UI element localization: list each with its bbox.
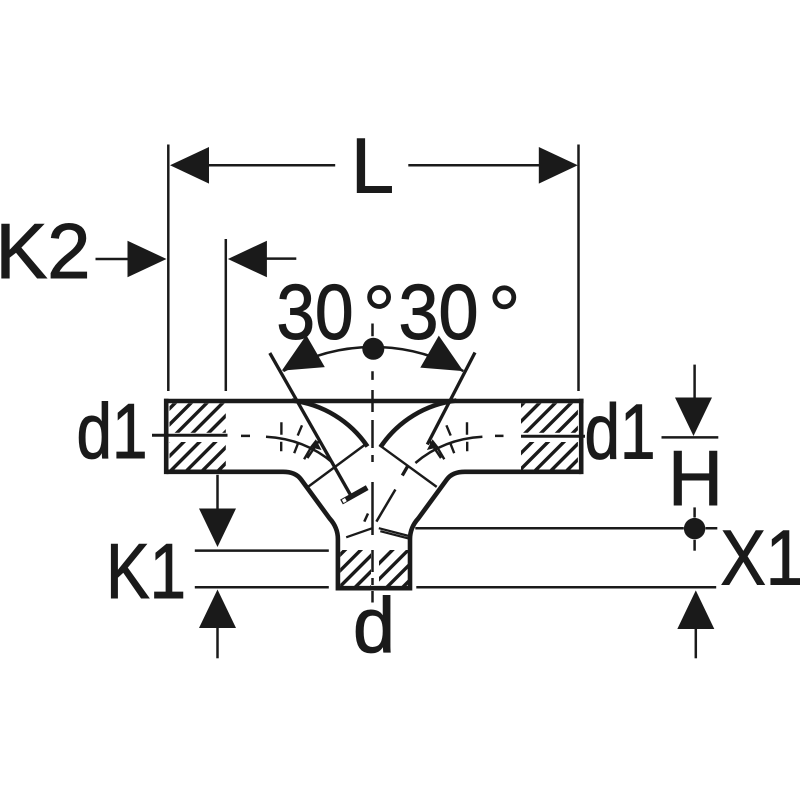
branch inner wall arc right	[381, 401, 457, 447]
K1 dimension line lower	[216, 627, 219, 658]
angle arrowhead right	[420, 336, 463, 372]
H lower stub	[693, 507, 696, 517]
horizontal centerline dashes	[241, 435, 504, 438]
arrowhead K1 down	[199, 509, 236, 548]
svg-text:K1: K1	[106, 527, 186, 615]
socket shoulder lines right	[379, 528, 409, 538]
inner wall line right	[379, 445, 437, 487]
K2 leader right	[266, 257, 296, 260]
angle dimension arc	[283, 347, 463, 371]
weld bar marker	[342, 488, 368, 502]
H dimension line upper	[693, 365, 696, 399]
K1 dimension line upper	[216, 475, 219, 509]
outlet socket hatch right	[379, 550, 408, 586]
branch axis 30deg left	[270, 353, 351, 496]
branch axis right dash	[402, 467, 407, 476]
socket shoulder line left	[346, 528, 372, 537]
svg-text:L: L	[351, 122, 394, 210]
svg-text:d: d	[353, 581, 395, 669]
fitting body outline	[166, 472, 581, 588]
svg-text:30: 30	[277, 267, 354, 355]
extension line K2 right	[225, 239, 228, 391]
arrowhead L right	[539, 147, 578, 184]
degree ring first	[370, 288, 389, 307]
degree ring second	[495, 288, 514, 307]
svg-text:30: 30	[399, 267, 479, 355]
flow curve right	[415, 437, 482, 463]
branch axis right lower	[376, 490, 395, 522]
outlet socket hatch left	[340, 550, 371, 586]
X1 extension line top	[415, 527, 717, 530]
pipe top edge	[164, 399, 583, 404]
H tick line at pipe centerline	[662, 436, 719, 439]
arrowhead K2 pointing left	[228, 241, 267, 278]
svg-text:d1: d1	[585, 388, 656, 476]
K1 extension line top	[195, 549, 329, 552]
pipe left end cap	[164, 399, 169, 474]
arrowhead L left	[170, 147, 209, 184]
tick marks left flow curve	[281, 422, 319, 459]
K1 extension line bottom left	[195, 586, 329, 589]
svg-text:X1: X1	[721, 514, 800, 602]
flow curve left	[266, 437, 333, 463]
arrowhead H down	[675, 398, 712, 437]
extension line right (L)	[577, 145, 580, 392]
arrowhead X1 up	[677, 590, 714, 629]
right socket hatch top	[521, 403, 578, 433]
right socket hatch bottom	[521, 442, 578, 470]
inner wall line left	[308, 444, 365, 487]
angle vertex dot	[362, 338, 384, 360]
tick marks right flow curve	[430, 422, 468, 459]
arrowhead K2 pointing right	[128, 241, 167, 278]
flow arrowhead left	[310, 439, 322, 450]
flow arrowhead right	[427, 439, 439, 450]
left socket hatch top	[170, 403, 226, 433]
vertical centerline dash-dot	[371, 324, 374, 603]
X1 upper stub below dot	[693, 540, 696, 551]
X1 dimension line lower	[695, 628, 698, 658]
pipe right end cap	[579, 399, 584, 474]
branch inner wall arc left	[292, 401, 368, 447]
branch axis left lower dash	[364, 514, 368, 522]
angle arrowhead left	[282, 335, 325, 371]
svg-text:K2: K2	[0, 207, 91, 295]
branch axis 30deg right upper	[427, 353, 475, 445]
horizontal centerline left leader d1	[152, 434, 228, 437]
left socket hatch bottom	[170, 442, 226, 470]
K2 leader left	[96, 258, 129, 261]
X1 extension line bottom	[416, 586, 716, 589]
horizontal centerline right leader d1	[521, 435, 585, 438]
dimension line L	[207, 164, 335, 167]
chain dimension dot	[684, 518, 705, 539]
arrowhead K1 up	[199, 590, 236, 629]
extension line left (L/K2)	[167, 145, 170, 392]
svg-text:d1: d1	[77, 387, 148, 475]
